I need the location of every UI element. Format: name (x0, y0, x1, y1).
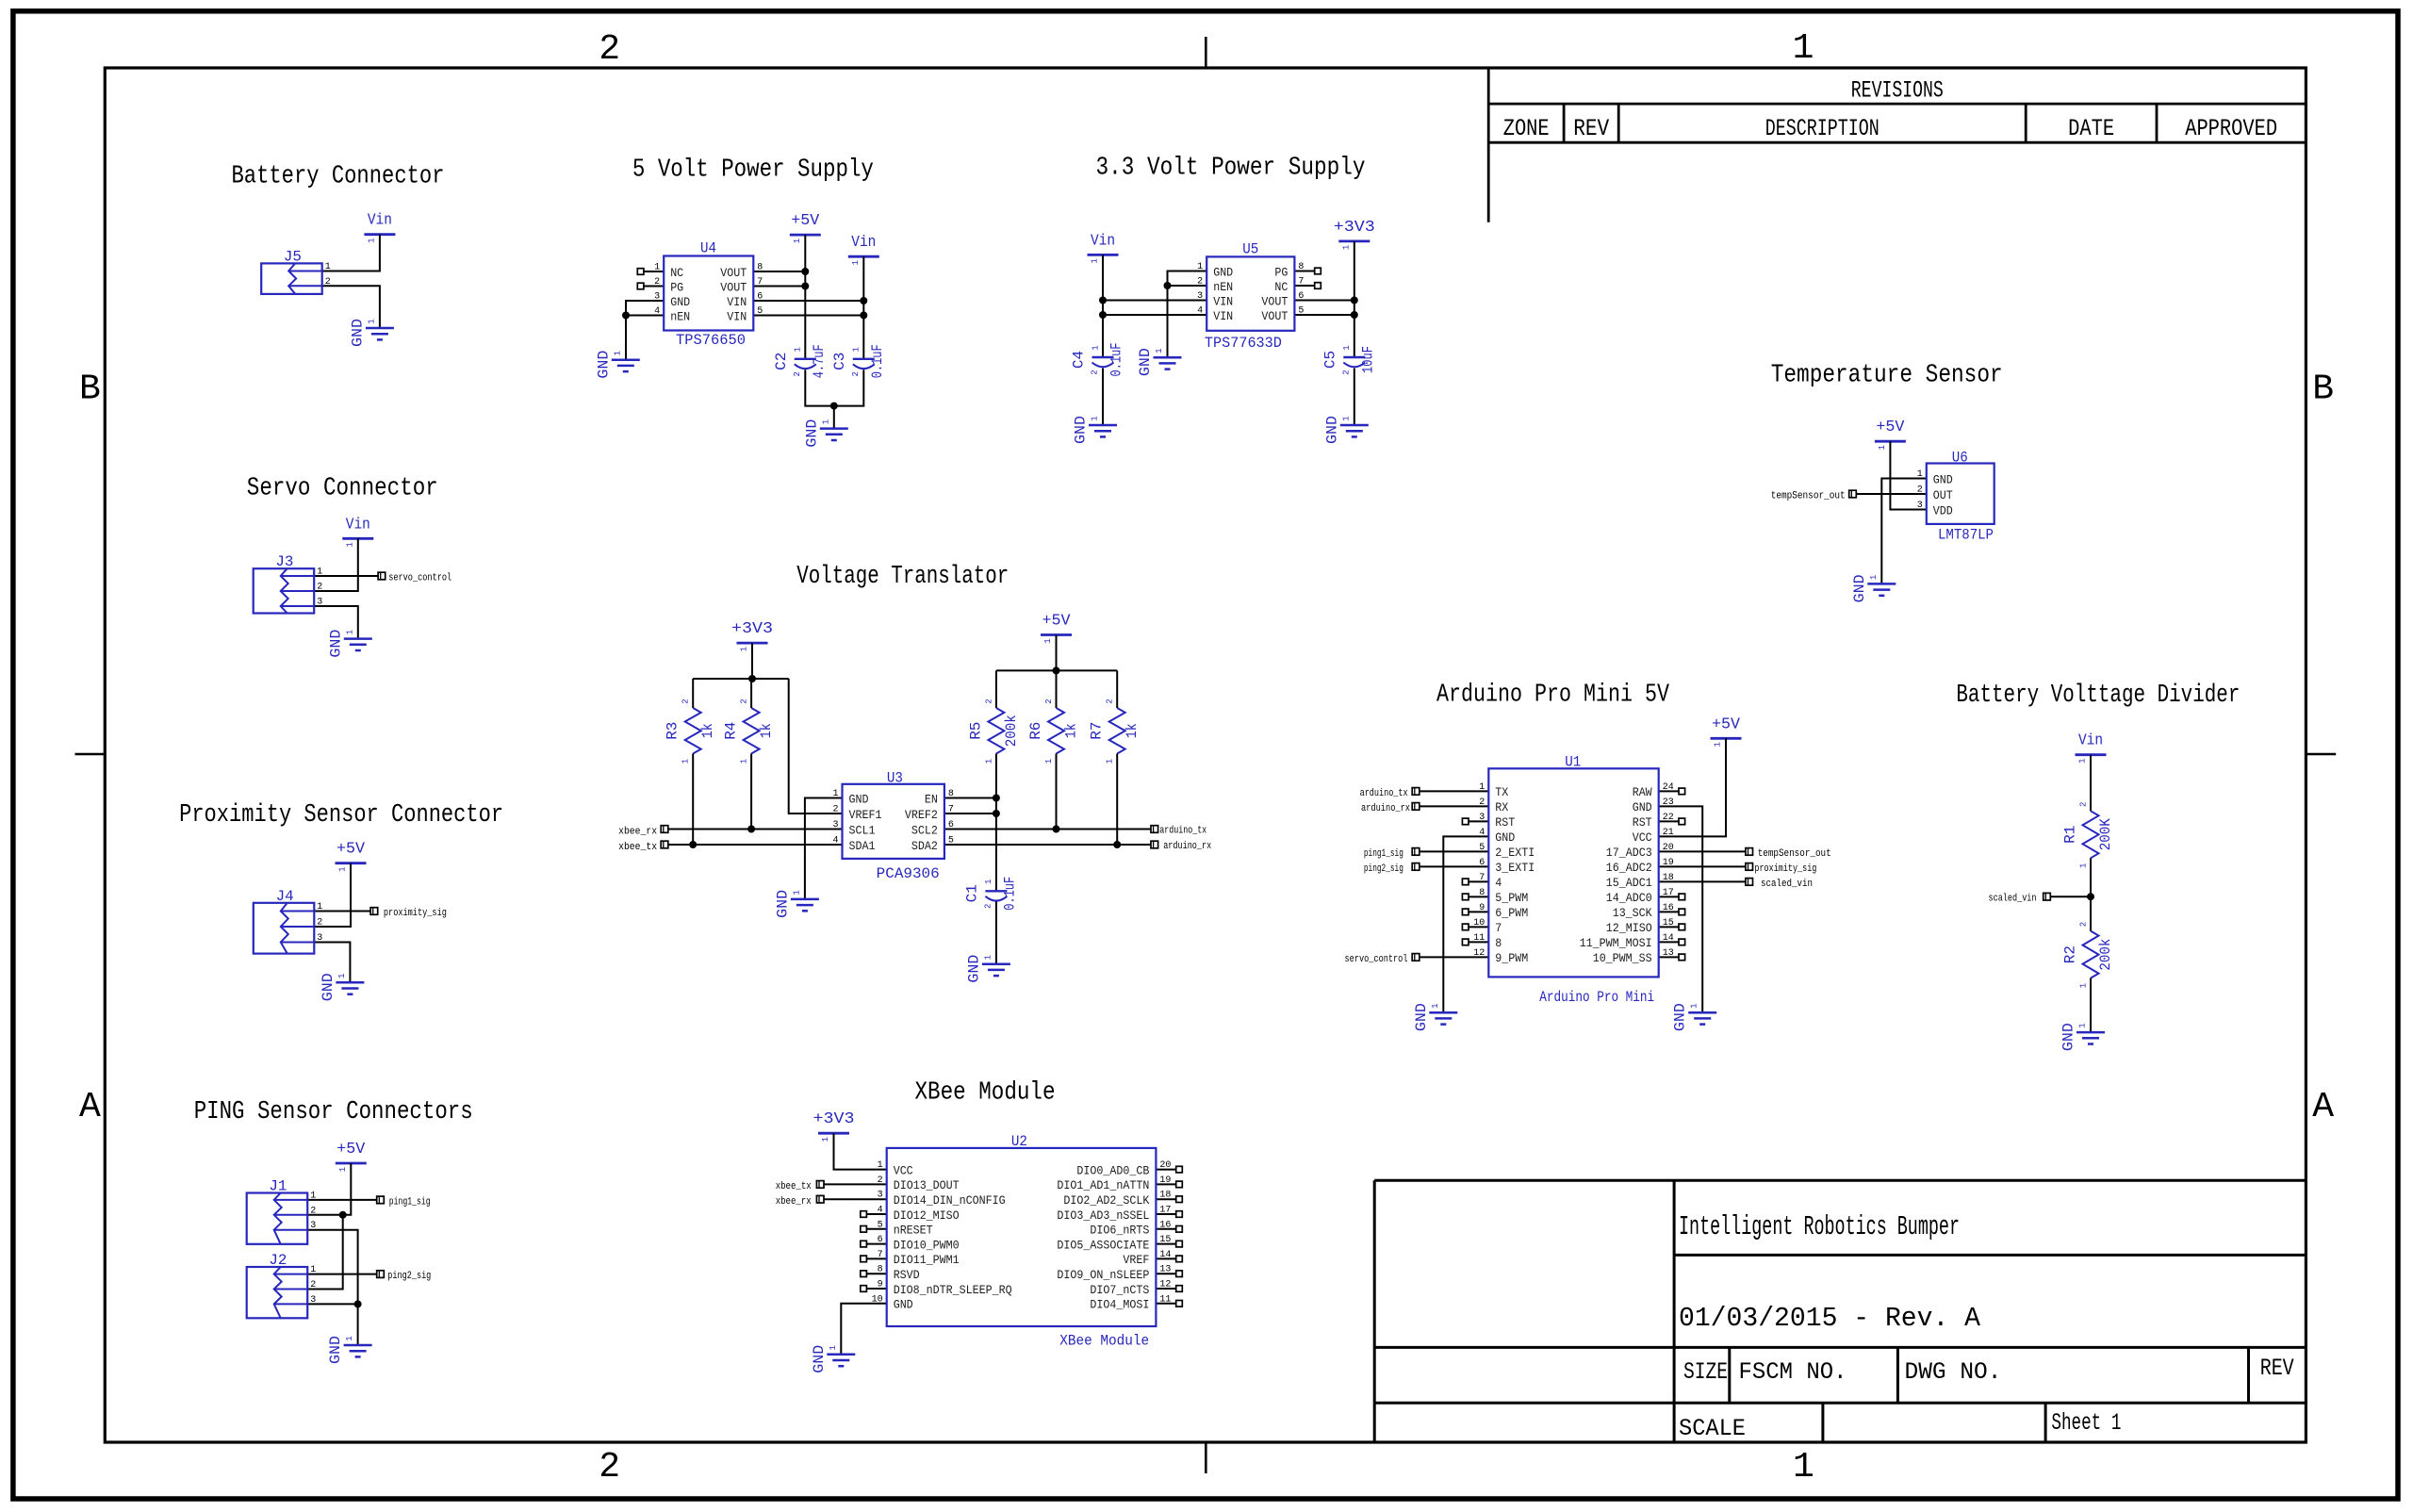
junction J1.3/J2.3 (354, 1300, 362, 1307)
svg-text:2: 2 (1091, 370, 1100, 374)
svg-text:arduino_rx: arduino_rx (1361, 803, 1410, 814)
svg-text:ping2_sig: ping2_sig (1364, 863, 1403, 875)
wire arduino_rx to RX (1420, 805, 1489, 807)
ground (R2) (2060, 1023, 2106, 1051)
svg-text:8: 8 (948, 789, 954, 799)
svg-text:U6: U6 (1952, 450, 1968, 467)
svg-text:18: 18 (1159, 1191, 1171, 1201)
power flag +5V (J1/J2 +5V) (336, 1141, 367, 1172)
wire R4 bottom lead (750, 754, 752, 830)
svg-text:1: 1 (310, 1191, 316, 1201)
wire C4 to GND (1102, 369, 1104, 426)
svg-text:1: 1 (1106, 759, 1115, 764)
svg-text:ping1_sig: ping1_sig (1364, 848, 1403, 860)
wire U1 GND pin4 (1443, 836, 1488, 1012)
svg-text:2: 2 (1044, 698, 1054, 703)
svg-text:3: 3 (832, 820, 838, 830)
no-connect pin U2.14 (1156, 1256, 1182, 1262)
svg-text:1: 1 (1917, 469, 1923, 480)
svg-text:6: 6 (948, 820, 954, 830)
svg-text:20: 20 (1663, 843, 1674, 853)
net label ping2_sig (1364, 863, 1420, 875)
no-connect pin U2.13 (1156, 1271, 1182, 1277)
svg-text:DESCRIPTION: DESCRIPTION (1765, 115, 1880, 142)
net label xbee_rx (776, 1195, 824, 1208)
svg-text:1: 1 (1479, 782, 1485, 793)
svg-text:3_EXTI: 3_EXTI (1495, 861, 1535, 875)
svg-text:DIO13_DOUT: DIO13_DOUT (894, 1178, 960, 1192)
no-connect pin U1.14 (1659, 939, 1685, 945)
svg-text:+3V3: +3V3 (731, 620, 773, 638)
svg-text:4: 4 (1495, 876, 1502, 890)
svg-text:GND: GND (2060, 1023, 2077, 1051)
svg-text:2: 2 (310, 1280, 316, 1290)
svg-text:GND: GND (774, 890, 791, 918)
wire R6 top lead (1056, 670, 1058, 708)
svg-text:1: 1 (338, 866, 348, 871)
svg-text:3: 3 (317, 933, 322, 944)
svg-text:VIN: VIN (727, 309, 747, 323)
wire +3V3 rail down to C5 (1354, 241, 1355, 357)
svg-text:DIO9_ON_nSLEEP: DIO9_ON_nSLEEP (1057, 1268, 1149, 1282)
wire J1 pin1 to ping1_sig (306, 1199, 377, 1201)
svg-text:U1: U1 (1565, 753, 1581, 770)
svg-text:1: 1 (1341, 245, 1351, 250)
connector J4 (254, 888, 323, 954)
svg-text:GND: GND (1933, 472, 1953, 486)
svg-text:7: 7 (1495, 921, 1502, 935)
svg-text:0.1uF: 0.1uF (1108, 343, 1125, 377)
junction Vin/VIN3 (1099, 297, 1107, 304)
svg-text:12: 12 (1159, 1280, 1171, 1290)
wire J5 pin1 to Vin (321, 235, 380, 271)
svg-text:1: 1 (2078, 1023, 2088, 1027)
svg-text:DIO4_MOSI: DIO4_MOSI (1090, 1298, 1149, 1312)
no-connect pin U1.15 (1659, 924, 1685, 930)
svg-text:nRESET: nRESET (894, 1224, 933, 1238)
IC U1 Arduino Pro Mini (1473, 753, 1673, 1006)
svg-text:R7: R7 (1089, 722, 1106, 740)
svg-text:Arduino Pro Mini 5V: Arduino Pro Mini 5V (1436, 682, 1670, 710)
net label arduino_tx (1151, 825, 1206, 836)
svg-text:4: 4 (878, 1206, 883, 1216)
svg-text:8: 8 (1495, 936, 1502, 950)
svg-text:XBee Module: XBee Module (915, 1079, 1056, 1108)
wire +5V rail down to C2 (804, 235, 806, 359)
net label xbee_tx (618, 841, 668, 853)
svg-text:13: 13 (1159, 1265, 1171, 1275)
svg-text:GND: GND (1633, 800, 1652, 814)
svg-text:VREF1: VREF1 (849, 808, 882, 822)
svg-text:NC: NC (670, 266, 683, 280)
ground (U3) (774, 890, 819, 918)
svg-text:1: 1 (681, 759, 691, 764)
ground (U2) (811, 1345, 856, 1373)
no-connect pin U2.8 (861, 1271, 887, 1277)
svg-text:+5V: +5V (337, 841, 366, 859)
svg-text:GND: GND (811, 1345, 828, 1373)
svg-text:DIO14_DIN_nCONFIG: DIO14_DIN_nCONFIG (894, 1193, 1006, 1208)
svg-text:5: 5 (757, 306, 763, 317)
no-connect pin U1.3 RST (1462, 818, 1488, 825)
svg-text:GND: GND (670, 295, 690, 309)
svg-text:Arduino Pro Mini: Arduino Pro Mini (1539, 989, 1654, 1006)
svg-text:arduino_rx: arduino_rx (1163, 841, 1211, 852)
svg-text:OUT: OUT (1933, 488, 1953, 502)
svg-text:3: 3 (878, 1191, 883, 1201)
wire J4 pin3 to GND (314, 943, 350, 983)
svg-text:VOUT: VOUT (1261, 309, 1288, 323)
svg-text:+3V3: +3V3 (813, 1110, 855, 1128)
wire gnd rail to GND (833, 406, 835, 429)
net label scaled_vin (1989, 893, 2051, 904)
svg-text:1: 1 (317, 902, 322, 912)
no-connect pin U2.12 (1156, 1286, 1182, 1292)
svg-text:DIO6_nRTS: DIO6_nRTS (1090, 1224, 1149, 1238)
svg-text:DIO3_AD3_nSSEL: DIO3_AD3_nSSEL (1057, 1208, 1149, 1223)
wire Vin rail down to C3 (862, 256, 864, 359)
svg-text:GND: GND (894, 1298, 913, 1312)
svg-text:2: 2 (599, 29, 620, 70)
svg-text:11_PWM_MOSI: 11_PWM_MOSI (1580, 936, 1652, 950)
wire U5 nEN pin2 (1168, 285, 1207, 287)
no-connect pin U5.7 NC (1294, 283, 1321, 289)
junction U4 gnd net (622, 312, 630, 320)
svg-text:2: 2 (740, 698, 749, 703)
IC U4 TPS76650 (654, 240, 763, 350)
svg-text:2: 2 (317, 583, 322, 593)
svg-text:2: 2 (2079, 802, 2089, 807)
no-connect pin U1.7 (1462, 879, 1488, 885)
svg-text:8: 8 (878, 1265, 883, 1275)
svg-text:REVISIONS: REVISIONS (1851, 77, 1944, 105)
wire J3 pin1 to servo_control (314, 575, 378, 577)
svg-text:SIZE: SIZE (1683, 1358, 1728, 1386)
svg-text:1: 1 (793, 238, 802, 243)
svg-text:1: 1 (325, 262, 331, 272)
svg-text:3: 3 (1479, 813, 1485, 823)
svg-text:1: 1 (821, 419, 830, 424)
wire J2 pin3 to gnd net (306, 1303, 358, 1305)
svg-text:6: 6 (1298, 291, 1304, 302)
svg-text:2: 2 (1341, 370, 1351, 374)
no-connect pin U1.16 (1659, 909, 1685, 915)
svg-text:DIO7_nCTS: DIO7_nCTS (1090, 1283, 1149, 1297)
svg-text:1: 1 (792, 890, 801, 895)
svg-text:1: 1 (338, 1167, 348, 1172)
power flag +3V3 (U5 +3V3) (1334, 219, 1375, 250)
svg-text:3: 3 (1917, 501, 1923, 511)
net label scaled_vin (1746, 879, 1813, 890)
svg-text:3: 3 (310, 1221, 316, 1231)
svg-text:11: 11 (1473, 933, 1485, 944)
wire U4 VIN5 to Vin (753, 315, 863, 317)
IC U6 LMT87LP (1917, 450, 1994, 544)
wire U6 +5V to VDD (1890, 441, 1926, 509)
connector J2 (247, 1252, 317, 1318)
svg-text:2: 2 (832, 805, 838, 815)
svg-text:VOUT: VOUT (720, 280, 747, 294)
power flag +5V (U4 +5V) (790, 212, 821, 243)
svg-text:1: 1 (1342, 345, 1352, 350)
wire R2 to GND (2090, 978, 2092, 1033)
svg-text:GND: GND (595, 351, 612, 379)
svg-text:RSVD: RSVD (894, 1268, 920, 1282)
svg-text:U4: U4 (700, 240, 716, 257)
svg-text:Battery Connector: Battery Connector (232, 163, 445, 191)
svg-text:10uF: 10uF (1359, 346, 1376, 373)
svg-text:16_ADC2: 16_ADC2 (1606, 861, 1652, 875)
connector J5 (261, 248, 331, 294)
svg-text:DIO5_ASSOCIATE: DIO5_ASSOCIATE (1057, 1238, 1149, 1252)
no-connect pin U1.24 RAW (1659, 788, 1685, 795)
wire +3V3 to VCC (834, 1133, 887, 1169)
svg-text:10: 10 (1473, 918, 1485, 929)
svg-text:1: 1 (317, 567, 322, 578)
svg-text:7: 7 (878, 1250, 883, 1260)
svg-text:C5: C5 (1321, 351, 1338, 369)
svg-text:2_EXTI: 2_EXTI (1495, 846, 1535, 860)
svg-text:4: 4 (832, 836, 838, 846)
svg-text:ZONE: ZONE (1503, 115, 1550, 142)
no-connect pin U1.9 (1462, 909, 1488, 915)
junction Vin/VIN5 (860, 312, 867, 320)
svg-text:proximity_sig: proximity_sig (384, 908, 447, 919)
svg-text:DIO12_MISO: DIO12_MISO (894, 1208, 960, 1223)
svg-text:1: 1 (2079, 983, 2089, 988)
svg-text:5_PWM: 5_PWM (1495, 891, 1528, 905)
net label proximity_sig (370, 908, 447, 919)
resistor R7 1k (1089, 698, 1141, 764)
svg-text:1k: 1k (699, 723, 716, 738)
svg-text:Temperature Sensor: Temperature Sensor (1771, 362, 2003, 390)
svg-text:17: 17 (1663, 888, 1674, 898)
power flag Vin (U5 Vin) (1088, 232, 1119, 263)
svg-text:23: 23 (1663, 797, 1674, 808)
svg-text:4: 4 (1197, 306, 1203, 317)
svg-text:20: 20 (1159, 1160, 1171, 1171)
svg-text:RST: RST (1495, 815, 1515, 830)
capacitor C1 0.1uF (963, 877, 1018, 911)
junction +5V/VOUT7 (801, 283, 809, 290)
wire VREF2 to R5 (944, 813, 996, 814)
svg-text:2: 2 (654, 277, 660, 288)
wire scaled_vin to node (2050, 896, 2091, 897)
svg-text:PG: PG (670, 280, 683, 294)
net label proximity_sig (1746, 863, 1817, 875)
svg-text:R5: R5 (967, 722, 984, 740)
svg-text:arduino_tx: arduino_tx (1159, 825, 1206, 836)
svg-text:16: 16 (1159, 1220, 1171, 1230)
svg-text:GND: GND (965, 955, 982, 983)
net label servo_control (378, 572, 451, 583)
svg-text:Sheet 1: Sheet 1 (2051, 1409, 2121, 1437)
wire R6 bottom lead (1056, 754, 1058, 830)
no-connect pin U2.9 (861, 1286, 887, 1292)
no-connect pin U2.15 (1156, 1241, 1182, 1247)
svg-text:2: 2 (1479, 797, 1485, 808)
ground (U6) (1851, 574, 1896, 602)
no-connect pin U2.18 (1156, 1196, 1182, 1203)
no-connect pin U1.10 (1462, 924, 1488, 930)
junction J1.2/J2.2 (339, 1211, 347, 1219)
svg-text:Vin: Vin (1091, 232, 1115, 250)
svg-text:B: B (79, 370, 101, 410)
ground (J3) (327, 630, 372, 658)
svg-text:VIN: VIN (727, 295, 747, 309)
svg-text:2: 2 (681, 698, 691, 703)
ground (U4) (595, 351, 640, 379)
svg-text:nEN: nEN (1213, 280, 1233, 294)
svg-text:VREF: VREF (1123, 1253, 1149, 1267)
wire arduino_tx to TX (1420, 790, 1489, 792)
capacitor C3 0.1uF (831, 344, 886, 378)
svg-text:1: 1 (1714, 742, 1723, 747)
svg-text:2: 2 (878, 1175, 883, 1186)
IC U3 PCA9306 (832, 770, 953, 883)
no-connect pin U2.17 (1156, 1211, 1182, 1218)
wire EN to R5 (944, 797, 996, 799)
junction U5 gnd net (1164, 282, 1172, 289)
svg-text:GND: GND (349, 319, 366, 347)
capacitor C4 0.1uF (1071, 343, 1125, 377)
junction Vin/VIN6 (860, 297, 867, 304)
svg-text:21: 21 (1663, 828, 1674, 838)
wire U5 VIN4 to Vin (1103, 314, 1206, 316)
power flag +5V (U3 +5V) (1041, 613, 1072, 644)
svg-text:7: 7 (1479, 873, 1485, 883)
svg-text:REV: REV (1573, 115, 1609, 142)
svg-text:DIO2_AD2_SCLK: DIO2_AD2_SCLK (1063, 1193, 1149, 1208)
svg-text:R3: R3 (665, 722, 681, 740)
svg-text:1: 1 (740, 647, 749, 651)
svg-text:24: 24 (1663, 782, 1674, 793)
wire ping1_sig to 2_EXTI (1420, 850, 1489, 852)
svg-text:+5V: +5V (1712, 715, 1741, 733)
svg-text:LMT87LP: LMT87LP (1938, 527, 1994, 544)
svg-text:10: 10 (872, 1294, 883, 1305)
svg-text:REV: REV (2260, 1355, 2294, 1382)
svg-text:2: 2 (1197, 277, 1203, 288)
svg-text:1: 1 (829, 1345, 838, 1350)
wire R3 top lead (692, 679, 694, 708)
revisions table (1488, 68, 2306, 222)
resistor R6 1k (1027, 698, 1080, 764)
wire J2 pin1 to ping2_sig (306, 1274, 377, 1275)
svg-text:7: 7 (757, 277, 763, 288)
svg-text:+5V: +5V (337, 1141, 366, 1159)
ground (U1 left) (1413, 1003, 1458, 1031)
junction R6/SCL2 (1053, 826, 1060, 833)
svg-text:DATE: DATE (2068, 115, 2114, 142)
svg-text:14_ADC0: 14_ADC0 (1606, 891, 1652, 905)
svg-text:scaled_vin: scaled_vin (1761, 879, 1813, 890)
svg-text:ping2_sig: ping2_sig (387, 1271, 431, 1282)
svg-text:3: 3 (654, 292, 660, 303)
no-connect pin U1.22 RST (1659, 818, 1685, 825)
svg-text:2: 2 (1917, 485, 1923, 496)
junction R3/SDA1 (689, 841, 697, 848)
ground (J4) (320, 973, 365, 1001)
resistor R2 200k (2061, 922, 2114, 988)
wire U4 VOUT7 to +5V (753, 286, 805, 288)
svg-text:1: 1 (1431, 1003, 1440, 1008)
net label servo_control (1345, 954, 1420, 965)
wire rail to VREF1 (789, 679, 843, 814)
svg-text:9: 9 (1479, 903, 1485, 913)
svg-text:5: 5 (878, 1220, 883, 1230)
svg-text:R2: R2 (2061, 945, 2078, 963)
svg-text:0.1uF: 0.1uF (1001, 877, 1018, 911)
net label arduino_rx (1151, 841, 1212, 852)
power flag +5V (J4 +5V) (336, 841, 367, 872)
svg-text:1: 1 (821, 1137, 830, 1142)
svg-text:7: 7 (948, 805, 954, 815)
svg-text:PCA9306: PCA9306 (877, 865, 940, 882)
net label ping1_sig (377, 1196, 431, 1208)
no-connect pin U2.6 (861, 1241, 887, 1247)
svg-text:J3: J3 (275, 553, 293, 570)
svg-text:GND: GND (1213, 265, 1233, 279)
power flag Vin (U4 Vin) (848, 234, 879, 265)
svg-text:1: 1 (1690, 1003, 1699, 1008)
svg-text:APPROVED: APPROVED (2185, 115, 2277, 142)
svg-text:5: 5 (1298, 306, 1304, 317)
svg-text:xbee_tx: xbee_tx (776, 1181, 812, 1192)
svg-text:VDD: VDD (1933, 503, 1953, 518)
svg-text:SDA2: SDA2 (911, 839, 938, 853)
svg-text:1: 1 (1197, 262, 1203, 272)
svg-text:GND: GND (1672, 1003, 1689, 1031)
svg-text:SCALE: SCALE (1679, 1415, 1746, 1442)
power flag +5V (U1 +5V) (1711, 715, 1742, 747)
svg-text:tempSensor_out: tempSensor_out (1771, 490, 1846, 501)
wire 17_ADC3 to tempSensor_out (1659, 850, 1746, 852)
svg-text:17_ADC3: 17_ADC3 (1606, 846, 1652, 860)
svg-text:12: 12 (1473, 948, 1485, 959)
svg-text:GND: GND (327, 1336, 344, 1364)
svg-text:VOUT: VOUT (1261, 294, 1288, 308)
svg-text:1: 1 (852, 347, 862, 352)
svg-text:C1: C1 (963, 884, 980, 902)
svg-text:RAW: RAW (1633, 785, 1652, 799)
wire U5 VOUT6 to +3V3 (1294, 300, 1354, 302)
svg-text:VIN: VIN (1213, 309, 1233, 323)
svg-text:2: 2 (325, 277, 331, 288)
wire pullup rail 5V (996, 669, 1117, 671)
connector J1 (247, 1178, 317, 1244)
wire U4 VIN6 to Vin (753, 300, 863, 302)
svg-text:Servo Connector: Servo Connector (247, 475, 438, 503)
svg-text:C3: C3 (831, 353, 848, 370)
svg-text:4: 4 (1479, 828, 1485, 838)
svg-text:Intelligent Robotics Bumper: Intelligent Robotics Bumper (1679, 1211, 1960, 1242)
ground (C5) (1323, 416, 1369, 444)
svg-text:9_PWM: 9_PWM (1495, 951, 1528, 965)
IC U2 XBee Module (872, 1133, 1172, 1350)
svg-text:5: 5 (1479, 843, 1485, 853)
svg-text:8: 8 (1479, 888, 1485, 898)
svg-text:5: 5 (948, 836, 954, 846)
svg-text:1: 1 (1869, 575, 1879, 580)
capacitor C5 10uF (1321, 345, 1376, 374)
wire U5 VOUT5 to +3V3 (1294, 314, 1354, 316)
svg-text:arduino_tx: arduino_tx (1360, 788, 1408, 799)
svg-text:1: 1 (1341, 416, 1351, 420)
svg-text:2: 2 (793, 371, 802, 376)
wire R7 bottom lead (1116, 754, 1118, 846)
svg-text:1: 1 (337, 974, 347, 978)
